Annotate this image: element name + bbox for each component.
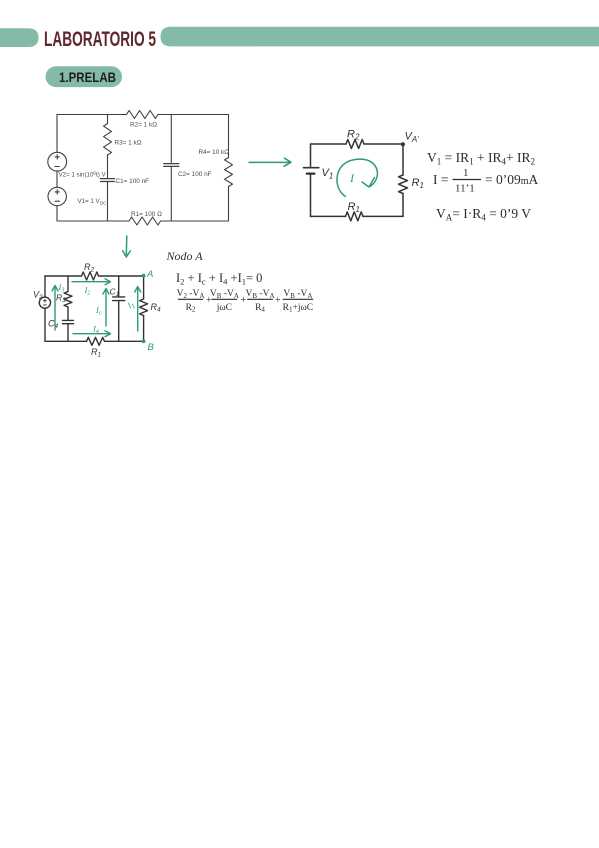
- capacitor C4 (c3 hand): [63, 319, 74, 321]
- wire: right rail lower: [228, 187, 230, 222]
- wire: C1 to bottom (c3): [118, 301, 120, 342]
- wire: C2 branch top: [170, 115, 172, 163]
- section pill 1.PRELAB: [46, 66, 123, 87]
- svg-text:R1: R1: [412, 177, 424, 190]
- wire: bottom rail right segment: [161, 220, 229, 222]
- wire: c3 left upper: [44, 276, 46, 297]
- wire: left rail lower: [56, 206, 58, 221]
- green arrow to simplified circuit: [249, 158, 291, 166]
- wire: loop top-right segment: [364, 143, 403, 145]
- wire: R3 branch top stub (c3): [67, 276, 69, 292]
- fraction term (VB-VA)/(R1+jwC): [283, 298, 314, 300]
- svg-text:R3= 1 kΩ: R3= 1 kΩ: [115, 140, 142, 147]
- svg-text:I2: I2: [84, 285, 91, 297]
- svg-text:+: +: [275, 295, 281, 306]
- svg-text:I2 + Ic + I4 +I1= 0: I2 + Ic + I4 +I1= 0: [176, 271, 262, 287]
- source V2 (c3 hand): [39, 297, 50, 308]
- wire: loop right lower: [402, 194, 404, 217]
- wire: right rail upper: [228, 115, 230, 158]
- header right green bar: [161, 27, 599, 47]
- svg-text:I3: I3: [58, 282, 65, 294]
- wire: c3 left lower: [44, 308, 46, 341]
- source V2 (AC): [48, 152, 67, 171]
- current arrow I2: [72, 279, 111, 285]
- wire: loop bottom-right segment: [363, 215, 403, 217]
- current arrow Ic: [103, 289, 109, 327]
- wire: R3 to C1: [107, 155, 109, 178]
- svg-text:1.PRELAB: 1.PRELAB: [59, 69, 116, 85]
- svg-text:I1: I1: [125, 299, 136, 312]
- svg-text:V2= 1 sin(106t) V: V2= 1 sin(106t) V: [59, 171, 107, 179]
- wire: c3 right upper: [143, 276, 145, 299]
- svg-text:R4= 10 kΩ: R4= 10 kΩ: [199, 149, 230, 156]
- svg-text:R4: R4: [151, 302, 162, 314]
- green down arrow: [123, 236, 131, 257]
- svg-text:Ic: Ic: [95, 305, 102, 317]
- svg-text:1: 1: [463, 167, 469, 179]
- green current loop arrow I: [337, 159, 377, 196]
- svg-text:11’1: 11’1: [455, 183, 475, 195]
- wire: C4 to bottom (c3): [67, 324, 69, 342]
- svg-text:V1: V1: [322, 167, 334, 181]
- capacitor C1 (c3 hand): [113, 296, 125, 298]
- resistor R2 (c3 hand): [82, 272, 99, 280]
- header left green bar: [0, 28, 39, 47]
- svg-text:= 0’09mA: = 0’09mA: [485, 172, 539, 187]
- svg-text:VB -VA: VB -VA: [210, 289, 239, 300]
- resistor R3 (c3 hand): [64, 292, 72, 308]
- node VA' dot: [401, 142, 405, 146]
- wire: c3 top-left segment: [45, 275, 82, 277]
- resistor R1 (c3 hand bottom): [87, 337, 105, 345]
- svg-text:R1: R1: [348, 201, 360, 214]
- svg-text:R1+jωC: R1+jωC: [283, 303, 313, 314]
- fraction term (V2-VA)/R2: [178, 298, 203, 300]
- svg-text:R4: R4: [255, 303, 265, 314]
- fraction term (VB-VA)/jwC: [212, 298, 238, 300]
- resistor R4 (c3 hand right): [140, 299, 148, 316]
- svg-text:VB -VA: VB -VA: [245, 289, 274, 300]
- svg-text:B: B: [148, 342, 155, 353]
- svg-text:R3: R3: [56, 293, 66, 305]
- svg-text:Nodo A: Nodo A: [166, 249, 204, 263]
- svg-text:VB -VA: VB -VA: [283, 289, 312, 300]
- svg-text:VA= I·R4 = 0’9 V: VA= I·R4 = 0’9 V: [436, 206, 531, 223]
- svg-text:R2: R2: [347, 129, 360, 142]
- svg-text:R1= 100 Ω: R1= 100 Ω: [131, 211, 162, 218]
- resistor R1 (printed): [129, 217, 161, 225]
- resistor R2 (hand): [346, 140, 364, 149]
- resistor R1 bottom (hand): [346, 212, 364, 221]
- wire: loop top-left segment: [311, 143, 347, 145]
- wire: C1 to bottom rail: [107, 182, 109, 222]
- wire: bottom rail left segment: [57, 220, 129, 222]
- wire: R3 branch top stub: [107, 115, 109, 124]
- wire: c3 right lower: [143, 316, 145, 342]
- wire: C2 to bottom rail: [170, 166, 172, 221]
- resistor R4 (printed): [225, 158, 233, 187]
- capacitor C1 (printed): [101, 178, 115, 180]
- svg-text:I4: I4: [92, 324, 99, 336]
- node B dot: [142, 339, 146, 343]
- fraction term (VB-VA)/R4: [247, 298, 273, 300]
- current arrow I4: [73, 331, 111, 337]
- svg-text:VA’: VA’: [405, 131, 419, 145]
- capacitor C2 (printed): [164, 163, 179, 165]
- svg-text:R2: R2: [186, 303, 196, 314]
- battery V1 short plate: [307, 173, 315, 175]
- svg-text:R1: R1: [91, 347, 102, 359]
- svg-text:I: I: [349, 171, 355, 185]
- wire: c3 top-right segment: [99, 275, 144, 277]
- svg-text:A: A: [146, 269, 153, 280]
- svg-text:LABORATORIO 5: LABORATORIO 5: [44, 28, 156, 51]
- wire: top rail left segment: [57, 114, 127, 116]
- source V1 (DC): [48, 187, 66, 205]
- svg-text:jωC: jωC: [216, 303, 232, 313]
- wire: c3 bottom-right segment: [105, 340, 144, 342]
- svg-text:R2: R2: [84, 262, 95, 274]
- wire: loop bottom-left segment: [311, 215, 346, 217]
- wire: left rail upper: [56, 115, 58, 153]
- resistor R2 (printed): [127, 111, 159, 119]
- battery V1 long plate: [304, 167, 319, 169]
- svg-text:C2= 100 nF: C2= 100 nF: [178, 171, 212, 178]
- current arrow I1: [135, 287, 141, 332]
- wire: R3 to C4 (c3): [67, 307, 69, 320]
- svg-text:C4: C4: [48, 319, 59, 331]
- wire: loop left lower: [310, 174, 312, 217]
- node A dot: [142, 274, 146, 278]
- current arrow I3: [52, 286, 58, 331]
- resistor R1 right (hand): [399, 175, 408, 194]
- resistor R3 (printed): [104, 124, 112, 156]
- wire: loop left upper: [310, 144, 312, 168]
- svg-text:I =: I =: [433, 172, 448, 187]
- wire: c3 bottom-left segment: [45, 340, 87, 342]
- svg-text:R2= 1 kΩ: R2= 1 kΩ: [130, 122, 157, 129]
- svg-text:V1= 1 VDC: V1= 1 VDC: [78, 198, 108, 206]
- svg-text:V2: V2: [33, 290, 43, 302]
- wire: top rail right segment: [158, 114, 229, 116]
- svg-text:V2 -VA: V2 -VA: [177, 289, 205, 300]
- svg-text:V1 = IR1 + IR4+ IR2: V1 = IR1 + IR4+ IR2: [427, 150, 535, 167]
- wire: C1 branch top (c3): [118, 276, 120, 296]
- svg-text:C1= 100 nF: C1= 100 nF: [116, 178, 150, 185]
- wire: between V2 and V1: [56, 171, 58, 187]
- wire: loop right upper: [402, 144, 404, 175]
